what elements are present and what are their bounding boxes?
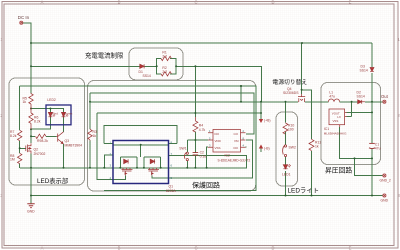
wire center drop Q1: [140, 145, 142, 157]
svg-text:Green: Green: [64, 112, 73, 116]
resistor R1 (horizontal): [161, 56, 171, 60]
svg-text:47u: 47u: [329, 94, 335, 98]
IC2 pin numbers: [209, 129, 245, 147]
svg-text:VM: VM: [234, 139, 239, 143]
navy box LED2: [46, 105, 71, 125]
junction VSS line / GND_2 drop: [354, 157, 356, 159]
wire bus y=167.8: [20, 156, 247, 168]
wire pin1 stub: [104, 143, 177, 145]
frame column letters top: [41, 0, 352, 5]
junction LED2 anode node: [49, 108, 51, 110]
terminal Out: [383, 100, 386, 103]
GND symbol (left): [27, 204, 34, 208]
wire bus y=101.8 right: [305, 101, 383, 103]
svg-text:B: B: [118, 245, 121, 250]
junction battery bus left end / R3 column: [89, 101, 91, 103]
LED red (LED2 box): [48, 112, 52, 116]
diode D2: [358, 100, 362, 104]
junction y86 line / x241 drop: [240, 85, 242, 87]
junction Q4 gate node: [301, 89, 303, 91]
svg-text:Q1: Q1: [169, 185, 174, 189]
resistor R11: [309, 139, 314, 151]
wire gate2: [152, 140, 253, 178]
wire x19.7 R7 R8: [19, 86, 21, 168]
resistor R5: [29, 93, 33, 109]
svg-text:SW1: SW1: [179, 147, 186, 151]
svg-text:Q2: Q2: [34, 148, 39, 152]
wire x241: [240, 86, 242, 102]
svg-text:LED表示部: LED表示部: [37, 176, 68, 185]
svg-text:47u: 47u: [375, 147, 381, 151]
svg-text:DC In: DC In: [18, 15, 30, 20]
junction DC In rail meets top rail: [30, 42, 32, 44]
group box 保護回路: [88, 81, 256, 192]
capacitor C1 (polarized): [369, 143, 375, 148]
junction top rail / Q4 gate drop: [301, 42, 303, 44]
svg-text:8205A: 8205A: [166, 189, 177, 193]
junction Q1 cell A right on bus: [136, 167, 138, 169]
junction R1R2 right node: [175, 65, 177, 67]
junction R4 bottom / VDD node: [194, 139, 196, 141]
wire CO route: [246, 146, 247, 148]
IC2 box S-8261: [208, 130, 246, 153]
terminal GND_2: [383, 174, 386, 177]
wire R1 branch: [157, 58, 176, 66]
svg-text:D: D: [271, 245, 274, 250]
wire x31 down: [30, 43, 32, 94]
wire GND_2: [355, 158, 383, 175]
junction SW1 / minus bus: [186, 167, 188, 169]
junction Q3 emitter / minus bus: [63, 167, 65, 169]
svg-text:E: E: [349, 245, 352, 250]
MOSFET Q1 cell B: [148, 168, 159, 176]
wire loop over Q1: [104, 126, 177, 144]
junction R5 bottom / LED2 feed: [30, 108, 32, 110]
svg-text:LED1: LED1: [282, 173, 291, 177]
svg-text:(-B): (-B): [264, 147, 270, 151]
svg-text:C: C: [194, 0, 197, 5]
svg-text:A: A: [41, 0, 44, 5]
junction R11 bottom / GND bus: [311, 195, 313, 197]
navy box Q1: [113, 141, 169, 184]
wire -B stub: [260, 149, 262, 153]
LED1 (light): [283, 165, 287, 169]
svg-text:DO: DO: [215, 132, 220, 136]
wire D3 column: [371, 43, 373, 102]
junction battery bus / LED light feed: [285, 101, 287, 103]
junction y66 / R4 column: [194, 65, 196, 67]
wire out node verticals: [347, 102, 372, 117]
svg-text:4.7k: 4.7k: [199, 128, 206, 132]
junction LX node on battery bus: [351, 101, 353, 103]
svg-text:0.1u: 0.1u: [200, 155, 207, 159]
svg-text:SW2: SW2: [289, 146, 296, 150]
svg-text:8.2k: 8.2k: [42, 139, 49, 143]
junction +B rail / y113 net: [260, 112, 262, 114]
net arrow +B: [259, 119, 263, 123]
frame row numbers: [0, 37, 400, 198]
switch SW2 (LED light): [283, 145, 287, 157]
resistor R8: [18, 153, 22, 164]
resistor R10: [283, 123, 288, 135]
svg-text:SS14: SS14: [357, 94, 365, 98]
junction R7-R8 divider / Q2 gate: [19, 147, 21, 149]
resistor R2 (horizontal): [161, 72, 171, 76]
net arrow -B: [259, 145, 263, 149]
junction y86 line / x241 drop: [240, 85, 242, 87]
diode Q1 cell B: [150, 159, 154, 163]
diode D1: [140, 64, 144, 68]
resistor R4: [193, 117, 198, 132]
wire VSS route: [207, 147, 208, 168]
junction R3 bottom / minus bus: [89, 167, 91, 169]
group box LEDライト: [276, 112, 298, 186]
wire LED light column: [285, 102, 287, 196]
svg-text:DO: DO: [234, 146, 239, 150]
svg-text:2.2: 2.2: [162, 54, 167, 58]
svg-text:VDD: VDD: [215, 139, 222, 143]
capacitor C2: [193, 153, 199, 155]
svg-text:LED2: LED2: [47, 98, 56, 102]
diode Q1 cell A: [124, 159, 128, 163]
svg-text:MMBT3904: MMBT3904: [65, 144, 83, 148]
svg-text:1k: 1k: [315, 145, 319, 149]
svg-text:SS14: SS14: [143, 74, 151, 78]
wire x261 +B: [260, 102, 262, 119]
junction C1 bottom / VSS line: [371, 157, 373, 159]
LED green (LED2 box): [62, 112, 66, 116]
junction out node / D3 column: [371, 101, 373, 103]
svg-text:昇圧回路: 昇圧回路: [325, 165, 352, 174]
svg-text:IC1: IC1: [324, 127, 329, 131]
transistor Q4 (P-MOSFET SI2306DS, horizontal on bus): [298, 94, 305, 102]
wire gate1: [124, 175, 126, 179]
transistor Q2 (NMOS 2N7002): [26, 143, 31, 153]
wire y=92.8 loop: [90, 93, 254, 134]
wire Q3 collector: [63, 117, 65, 132]
svg-text:ML6384A50HKG: ML6384A50HKG: [324, 131, 347, 135]
group box LED表示部: [9, 78, 85, 185]
junction Q1 cell A left on bus: [119, 167, 121, 169]
svg-text:GND_2: GND_2: [380, 179, 391, 183]
svg-text:(+B): (+B): [264, 118, 271, 122]
svg-text:100: 100: [288, 128, 294, 132]
wire diode loop verticals Q1: [120, 157, 160, 168]
junction VOUT line / out column: [371, 111, 373, 113]
MOSFET Q1 cell A: [122, 168, 133, 176]
svg-text:8.2k: 8.2k: [34, 119, 41, 123]
svg-text:保護回路: 保護回路: [192, 180, 220, 189]
svg-text:IC2: IC2: [225, 153, 230, 157]
wire y=113: [97, 112, 261, 114]
wire y=86 loop: [20, 86, 256, 190]
svg-text:B: B: [118, 0, 121, 5]
junction GND bus / GND symbol stub: [30, 195, 32, 197]
resistor R6: [29, 109, 33, 130]
svg-text:1M: 1M: [10, 157, 15, 161]
transistor Q3 (NPN MMBT3904): [57, 132, 64, 144]
resistor R9 (horizontal): [36, 134, 46, 138]
svg-text:CO: CO: [234, 132, 239, 136]
svg-text:VSS: VSS: [215, 146, 221, 150]
svg-text:E: E: [349, 0, 352, 5]
resistor R3 (in protection box): [88, 129, 92, 141]
wire GND stub: [30, 196, 32, 204]
wire SW1 vertical: [186, 140, 188, 168]
wire y=66.3 inside box: [144, 65, 183, 67]
wire R4 vertical: [194, 66, 196, 140]
svg-text:LEDライト: LEDライト: [288, 187, 320, 195]
wire R3b vertical: [89, 93, 91, 168]
wire R9 leads: [31, 135, 57, 137]
junction Q1 cell B right on bus: [160, 167, 162, 169]
wire Q3 emitter: [63, 144, 65, 168]
wire R2 branch: [157, 66, 176, 74]
junction R1R2 left node: [156, 65, 158, 67]
wire GND bus: [31, 195, 383, 197]
wire top rail y=43: [31, 42, 372, 44]
svg-text:D: D: [271, 0, 274, 5]
diode D3 (vertical): [370, 68, 374, 72]
wire pin2: [104, 155, 113, 168]
wire Q4 gate node: [302, 43, 312, 139]
Q1 pin numbers: [110, 140, 173, 180]
svg-text:Red: Red: [52, 112, 58, 116]
wire LED2 entry: [31, 109, 64, 113]
svg-text:A: A: [41, 245, 44, 250]
svg-text:C: C: [194, 245, 197, 250]
svg-text:SI2306DS: SI2306DS: [283, 91, 299, 95]
svg-text:GND: GND: [27, 210, 35, 214]
wire LED2 red anode stub: [49, 109, 51, 113]
svg-text:R4: R4: [199, 124, 203, 128]
wire diode row Q1: [120, 156, 160, 158]
svg-text:2N7002: 2N7002: [34, 152, 46, 156]
wire y=140 VDD: [187, 139, 208, 141]
group box 充電電流制限: [129, 48, 183, 80]
svg-text:Out: Out: [381, 94, 389, 99]
svg-text:電源切り替え: 電源切り替え: [272, 78, 307, 86]
junction y113 / R4 top: [194, 112, 196, 114]
wire y=66.3 to corner x261.7: [183, 66, 262, 102]
inductor L1: [328, 99, 339, 102]
svg-text:VSS: VSS: [333, 119, 339, 123]
switch SW1: [184, 152, 188, 161]
svg-text:充電電流制限: 充電電流制限: [85, 51, 124, 60]
terminal GND: [383, 194, 386, 197]
terminal DC In: [20, 21, 23, 24]
junction Q2 source / minus bus: [30, 167, 32, 169]
svg-text:1k: 1k: [23, 100, 27, 104]
wires (green): [20, 23, 383, 204]
wire Q2 gate: [20, 147, 26, 149]
wire x97 pin4: [97, 113, 125, 179]
svg-text:SS14: SS14: [360, 69, 368, 73]
svg-text:1k: 1k: [93, 134, 97, 138]
junction x31 column / y66 feed: [30, 65, 32, 67]
wire inside Q1 top: [113, 144, 169, 146]
junction LED1 return / GND bus: [285, 195, 287, 197]
wire x31 Q2: [30, 129, 32, 195]
wire VOUT: [347, 111, 372, 113]
junction R6 bottom / red LED return: [30, 128, 32, 130]
wire R11 bottom: [311, 151, 313, 196]
svg-text:Q3: Q3: [65, 139, 70, 143]
svg-text:S-8261AEJMD-G3J-T2: S-8261AEJMD-G3J-T2: [218, 159, 251, 163]
junction +B rail / battery bus: [260, 101, 262, 103]
IC1 box boost: [329, 109, 347, 127]
wire VSS IC1: [340, 127, 372, 158]
resistor R7: [18, 130, 22, 141]
junction IC2 VSS drop / minus bus: [206, 167, 208, 169]
group box 昇圧回路: [321, 83, 381, 165]
wire y=66.3 main: [31, 65, 140, 67]
frame column letters bottom: [41, 245, 352, 250]
junction Q1 internal top node: [140, 144, 142, 146]
svg-text:8.2k: 8.2k: [10, 134, 17, 138]
svg-text:GND: GND: [381, 199, 389, 203]
wire DC In to corner: [21, 23, 31, 43]
junction x241 / battery bus: [240, 101, 242, 103]
svg-text:2.2: 2.2: [162, 70, 167, 74]
junction C1 return / GND bus: [371, 195, 373, 197]
wire C2 vertical: [194, 140, 196, 168]
junction Q1 cell B left on bus: [143, 167, 145, 169]
wire y=129.2: [31, 117, 50, 129]
junction x31 / R9 feed: [30, 135, 32, 137]
wire bus y=101.8 left: [90, 101, 298, 103]
wire C1 column: [371, 112, 373, 195]
junction C2 / minus bus: [194, 167, 196, 169]
junction pin2 drop / minus bus: [103, 167, 105, 169]
